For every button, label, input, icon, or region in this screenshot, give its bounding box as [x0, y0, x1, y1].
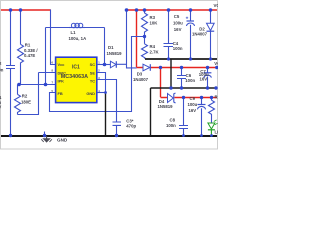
wire: red vertical from rail to output line: [136, 10, 138, 68]
node aux-R5: [210, 96, 213, 99]
svg-text:Vcc: Vcc: [58, 62, 66, 67]
svg-text:1N4007: 1N4007: [133, 77, 149, 82]
wire: GND pin stub: [97, 92, 106, 94]
svg-text:100u: 100u: [173, 21, 183, 26]
node aux-C8: [182, 96, 185, 99]
svg-text:0V: 0V: [0, 104, 1, 109]
wire: red output rail (right): [125, 9, 217, 11]
svg-text:L1: L1: [71, 30, 77, 35]
ground mid bus black y88.6: [151, 87, 218, 89]
node R3-R4-FB: [143, 35, 146, 38]
svg-text:100n: 100n: [166, 123, 176, 128]
wire: red output line y68: [137, 67, 218, 69]
svg-text:0.33E /: 0.33E /: [24, 48, 38, 53]
ground bottom rail: [1, 135, 217, 137]
svg-text:1N5819: 1N5819: [158, 104, 174, 109]
svg-text:C8: C8: [170, 118, 176, 123]
node rail-C2: [9, 8, 13, 12]
svg-text:R2: R2: [22, 94, 28, 99]
capacitor C6 100n: [177, 68, 195, 89]
wire: horizontal feed to inductor: [46, 27, 70, 29]
node gndrail-C4: [167, 57, 170, 60]
capacitor C1 label (clipped at edge): [0, 95, 2, 109]
wire: blue drop from rail to C2: [10, 10, 12, 66]
svg-text:D3: D3: [137, 72, 143, 77]
svg-text:DRC: DRC: [58, 70, 67, 75]
node rail-C8: [182, 134, 185, 137]
node gndrail-D2: [209, 57, 212, 60]
svg-text:IC1: IC1: [72, 64, 80, 70]
svg-text:1N5819: 1N5819: [107, 51, 123, 56]
wire: red aux output line y98: [161, 97, 218, 99]
svg-text:1N4007: 1N4007: [192, 32, 208, 37]
diode D3 1N4007: [133, 64, 150, 82]
capacitor C7 100u 16V (electrolytic): [199, 68, 212, 89]
node rail-C3: [115, 134, 118, 137]
node rail-D2: [209, 8, 213, 12]
resistor R2: [15, 73, 39, 115]
svg-text:00n: 00n: [0, 68, 4, 73]
capacitor C4 100n: [164, 10, 183, 60]
svg-text:16V: 16V: [189, 108, 197, 113]
capacitor C3 470p: [113, 119, 137, 136]
svg-text:VO: VO: [214, 61, 218, 66]
wire: red input rail (left): [1, 9, 51, 11]
svg-text:100u, 1A: 100u, 1A: [69, 36, 87, 41]
node rail-R1: [19, 8, 23, 12]
svg-text:R1: R1: [25, 42, 31, 47]
frame border: [1, 1, 218, 150]
diode D4 1N5819: [158, 93, 176, 109]
resistor R5 (label clipped): [209, 94, 219, 116]
svg-text:16V: 16V: [174, 27, 182, 32]
wire: black ground drop from IC: [105, 93, 107, 136]
wire: FB stub and feedback run: [50, 37, 145, 112]
svg-text:SE: SE: [90, 70, 96, 75]
capacitor C9 100u 16V (electrolytic): [188, 96, 206, 136]
node rail-D1riser: [125, 8, 129, 12]
wire: red drop to aux line: [160, 68, 162, 98]
capacitor C8 100n: [166, 98, 188, 136]
wire: TC stub: [97, 80, 117, 122]
svg-text:FB: FB: [58, 91, 63, 96]
wire: IPK horizontal: [19, 84, 56, 86]
node gnd-C7: [206, 86, 209, 89]
node gndrail-C5: [189, 57, 192, 60]
svg-text:180E: 180E: [21, 99, 31, 104]
diode D1 1N5819: [105, 45, 127, 68]
svg-text:100n: 100n: [185, 78, 195, 83]
svg-text:IPK: IPK: [58, 79, 65, 84]
svg-text:TC: TC: [90, 79, 95, 84]
node out-C6: [180, 66, 183, 69]
svg-text:470p: 470p: [126, 124, 136, 129]
inductor L1: [69, 23, 105, 64]
svg-text:0.47E: 0.47E: [24, 53, 35, 58]
svg-text:16V: 16V: [200, 77, 208, 82]
node gnd-C6: [180, 86, 183, 89]
svg-text:VC: VC: [214, 3, 219, 8]
ground symbol: [41, 136, 68, 143]
node rail-C9: [200, 134, 203, 137]
ground riser black: [170, 59, 172, 88]
IC1 MC34063A: [56, 57, 97, 102]
node rail-redvert: [135, 8, 139, 12]
svg-text:2.7K: 2.7K: [150, 49, 160, 54]
node gnd-end: [214, 86, 217, 89]
ground rail upper right (black): [145, 58, 217, 60]
svg-text:100u: 100u: [188, 102, 198, 107]
node rail-R3: [143, 8, 147, 12]
wire: vertical to IPK node: [45, 28, 47, 85]
node rail-stub: [43, 134, 46, 137]
svg-text:C5: C5: [174, 14, 180, 19]
LED1 (green, label clipped): [208, 116, 220, 136]
svg-text:D1: D1: [108, 45, 114, 50]
svg-text:SC: SC: [90, 62, 96, 67]
diode D2 1N4007: [192, 10, 214, 60]
svg-text:100n: 100n: [173, 46, 183, 51]
svg-text:C9: C9: [190, 96, 196, 101]
capacitor C2 (label clipped): [0, 61, 15, 136]
svg-text:10K: 10K: [150, 21, 159, 26]
svg-text:GND: GND: [86, 91, 95, 96]
svg-text:LE: LE: [215, 130, 219, 135]
wire: stub above bottom rail: [44, 132, 46, 136]
resistor R1: [18, 10, 39, 85]
node rail-LED: [210, 134, 213, 137]
node L1-SC-D1: [103, 63, 107, 67]
svg-text:R: R: [215, 94, 219, 99]
node IPK-R1R2: [17, 83, 21, 87]
svg-text:R3: R3: [150, 15, 156, 20]
svg-text:R4: R4: [150, 44, 156, 49]
node rail-C4: [167, 8, 171, 12]
node aux-C9: [200, 96, 203, 99]
ground drop black x150: [150, 88, 152, 136]
wire: D1 cathode riser to output rail: [127, 10, 137, 68]
resistor R4 2.7K: [142, 37, 160, 60]
resistor R3 10K: [142, 10, 159, 37]
node gnd-riser: [169, 86, 172, 89]
svg-text:GND: GND: [57, 138, 68, 143]
node out-auxdrop: [159, 66, 162, 69]
wire: SC stub to D1: [97, 64, 105, 66]
node IPK-drop: [44, 83, 48, 87]
node rail-C2b: [9, 134, 12, 137]
node out-C7: [206, 66, 209, 69]
wire: DRC horizontal / R2 loop top: [39, 72, 56, 74]
wire: blue drop from red rail end to Vcc: [51, 10, 56, 65]
node SE-GND: [104, 91, 107, 94]
node rail-C5: [189, 8, 193, 12]
wire: SE stub down to GND pin: [97, 73, 106, 93]
node out-end: [215, 66, 218, 69]
capacitor C5 100u 16V (electrolytic): [173, 10, 195, 60]
